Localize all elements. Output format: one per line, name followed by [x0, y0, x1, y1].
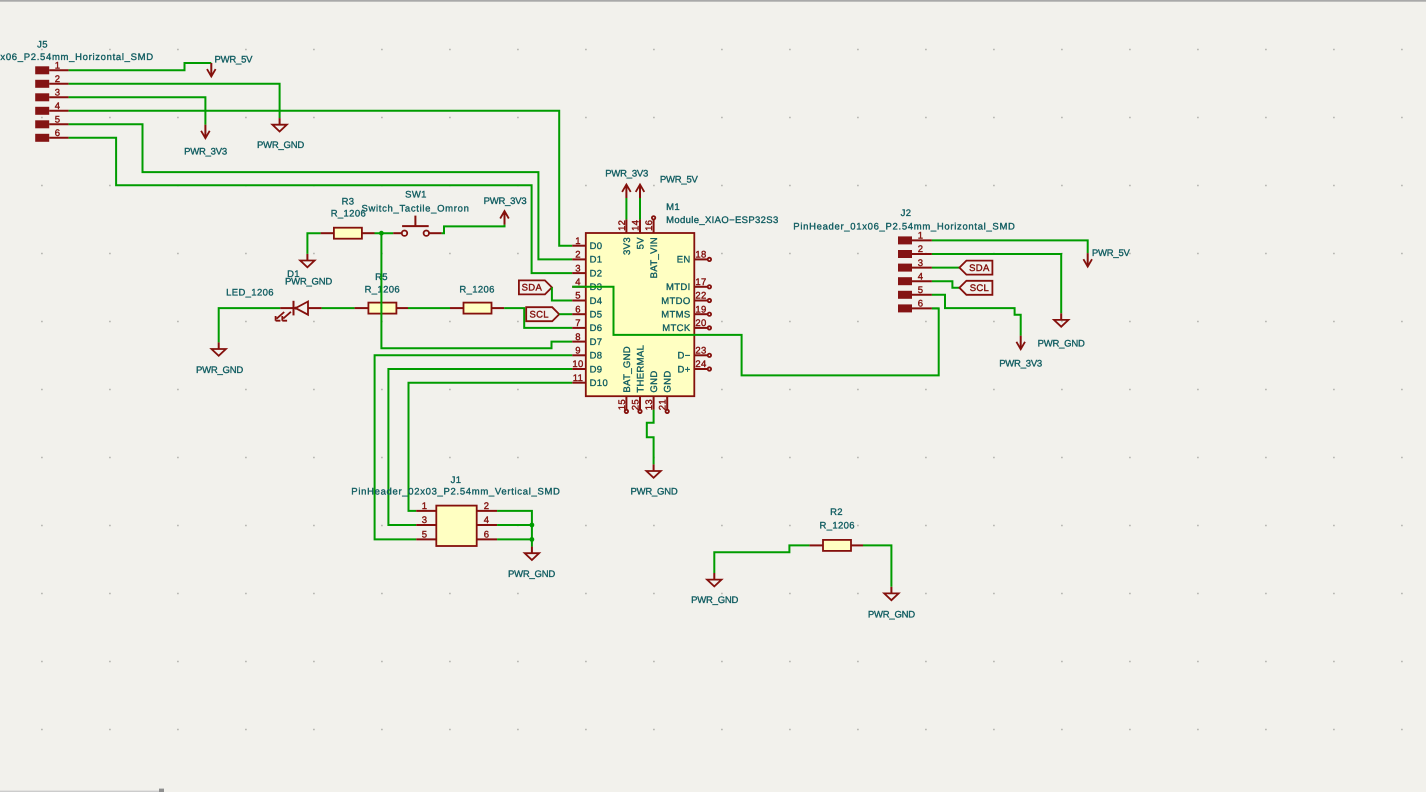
svg-text:THERMAL: THERMAL — [635, 345, 646, 393]
svg-text:6: 6 — [55, 128, 61, 139]
svg-text:PinHeader_01x06_P2.54mm_Horizo: PinHeader_01x06_P2.54mm_Horizontal_SMD — [793, 222, 1015, 233]
svg-text:22: 22 — [695, 291, 706, 302]
svg-text:D7: D7 — [590, 337, 603, 348]
power symbol PWR_GND — [691, 573, 738, 606]
svg-text:17: 17 — [695, 277, 706, 288]
power symbol PWR_GND — [285, 254, 332, 288]
svg-text:4: 4 — [55, 101, 61, 112]
svg-text:23: 23 — [695, 346, 706, 357]
wire J5 pin4 to M1 D0 — [69, 111, 573, 246]
junction node J1 pin6 — [530, 537, 535, 542]
LED D1 LED_1206 — [226, 269, 321, 321]
wire M1 D10 to J1 pin1 — [409, 383, 573, 511]
svg-text:PWR_GND: PWR_GND — [630, 486, 677, 497]
svg-text:D2: D2 — [590, 268, 603, 279]
svg-text:10: 10 — [572, 359, 583, 370]
svg-text:1: 1 — [422, 501, 428, 512]
svg-text:1: 1 — [575, 236, 581, 247]
svg-text:3V3: 3V3 — [622, 237, 633, 255]
svg-text:2: 2 — [575, 250, 581, 261]
svg-text:5: 5 — [575, 291, 581, 302]
svg-text:PWR_5V: PWR_5V — [1092, 248, 1131, 259]
svg-text:MTDI: MTDI — [666, 282, 691, 293]
svg-text:PWR_GND: PWR_GND — [868, 610, 915, 621]
wire R2 left to PWR_GND — [714, 545, 809, 573]
svg-text:24: 24 — [695, 359, 706, 370]
svg-text:Switch_Tactile_Omron: Switch_Tactile_Omron — [361, 203, 469, 214]
svg-text:D8: D8 — [590, 351, 603, 362]
svg-text:R_1206: R_1206 — [820, 521, 855, 532]
svg-text:4: 4 — [918, 271, 924, 282]
svg-text:PWR_GND: PWR_GND — [257, 140, 304, 151]
svg-text:GND: GND — [649, 370, 660, 392]
power symbol PWR_3V3 — [605, 168, 648, 198]
svg-text:J5: J5 — [37, 40, 48, 51]
global label SCL — [959, 281, 992, 295]
svg-text:PinHeader_02x03_P2.54mm_Vertic: PinHeader_02x03_P2.54mm_Vertical_SMD — [351, 486, 560, 497]
svg-text:PWR_5V: PWR_5V — [215, 55, 254, 66]
svg-text:SCL: SCL — [530, 309, 549, 320]
svg-text:PWR_GND: PWR_GND — [691, 595, 738, 606]
svg-text:D6: D6 — [590, 323, 603, 334]
svg-text:PWR_3V3: PWR_3V3 — [184, 147, 227, 158]
svg-text:SDA: SDA — [969, 263, 990, 274]
power symbol PWR_5V — [636, 175, 699, 198]
svg-text:5V: 5V — [635, 237, 646, 250]
power symbol PWR_3V3 — [999, 336, 1042, 370]
wire M1 D9 to J1 pin3 — [388, 369, 572, 525]
wire J5 pin6 to M1 D2 — [69, 138, 573, 273]
global label SDA — [959, 261, 992, 275]
svg-text:J1: J1 — [451, 475, 462, 486]
svg-text:5: 5 — [55, 115, 61, 126]
wire R3 right to SW1 — [375, 232, 394, 234]
resistor R3 — [321, 196, 375, 238]
wire SW1 to PWR_3V3 — [442, 225, 505, 234]
svg-text:MTDO: MTDO — [661, 296, 690, 307]
wire J2 pin1 to PWR_5V — [932, 240, 1088, 253]
svg-text:PWR_3V3: PWR_3V3 — [605, 168, 648, 179]
junction node R3/SW1 — [379, 231, 384, 236]
svg-text:D4: D4 — [590, 296, 603, 307]
svg-text:BAT_VIN: BAT_VIN — [649, 237, 660, 278]
svg-text:19: 19 — [695, 304, 706, 315]
svg-text:R_1206: R_1206 — [459, 285, 494, 296]
svg-text:6: 6 — [575, 304, 581, 315]
wire J2 pin4 to SCL — [932, 281, 960, 288]
wire J2 pin3 to SDA — [932, 267, 960, 269]
svg-text:SCL: SCL — [970, 283, 989, 294]
svg-text:6: 6 — [918, 299, 924, 310]
switch SW1 Switch_Tactile_Omron — [361, 190, 469, 236]
wire J5 pin2 to PWR_GND — [69, 84, 280, 118]
svg-text:PWR_3V3: PWR_3V3 — [484, 196, 527, 207]
svg-text:R3: R3 — [342, 196, 355, 207]
svg-text:13: 13 — [644, 399, 655, 410]
svg-text:2: 2 — [484, 501, 490, 512]
global label SCL — [526, 307, 559, 321]
svg-text:12: 12 — [617, 220, 628, 231]
wire junction down to D7 net — [381, 233, 572, 348]
global label SDA — [519, 280, 552, 294]
wire LED left to PWR_GND — [219, 308, 281, 342]
power symbol PWR_5V — [207, 55, 253, 77]
svg-text:15: 15 — [617, 399, 628, 410]
svg-text:25: 25 — [630, 399, 641, 410]
power symbol PWR_GND — [508, 547, 555, 581]
resistor R5 — [355, 272, 408, 314]
resistor R_1206 — [450, 285, 504, 314]
svg-text:3: 3 — [575, 263, 581, 274]
resistor R2 — [809, 507, 863, 551]
svg-text:R2: R2 — [830, 507, 843, 518]
wire J1 pins 2/4/6 to PWR_GND — [497, 511, 532, 547]
svg-text:D+: D+ — [677, 364, 690, 375]
connector J5 PinHeader_01x06 — [0, 40, 154, 142]
svg-text:D5: D5 — [590, 310, 603, 321]
svg-text:PinHeader_01x06_P2.54mm_Horizo: PinHeader_01x06_P2.54mm_Horizontal_SMD — [0, 52, 154, 63]
svg-text:18: 18 — [695, 250, 706, 261]
svg-text:SW1: SW1 — [405, 190, 427, 201]
power symbol PWR_3V3 — [484, 196, 527, 224]
svg-text:8: 8 — [575, 332, 581, 343]
power symbol PWR_3V3 — [184, 125, 227, 158]
svg-text:J2: J2 — [901, 208, 912, 219]
svg-text:PWR_5V: PWR_5V — [660, 175, 699, 186]
svg-text:6: 6 — [484, 530, 490, 541]
svg-text:BAT_GND: BAT_GND — [622, 346, 633, 393]
svg-text:3: 3 — [422, 515, 428, 526]
svg-text:2: 2 — [55, 74, 61, 85]
wire M1 3V3 pin12 to PWR_3V3 — [625, 198, 627, 219]
power symbol PWR_5V — [1083, 248, 1130, 267]
svg-text:D0: D0 — [590, 241, 603, 252]
connector J1 PinHeader_02x03 — [351, 475, 560, 546]
wire J2 pin6 stub — [932, 307, 939, 309]
svg-text:14: 14 — [630, 220, 641, 231]
power symbol PWR_GND — [257, 118, 304, 151]
wire R5 to R4 — [408, 307, 450, 309]
wire SCL to M1 D5 — [559, 313, 572, 315]
svg-text:PWR_GND: PWR_GND — [1038, 338, 1085, 349]
power symbol PWR_GND — [196, 342, 243, 375]
wire J5 pin3 to PWR_3V3 — [69, 97, 206, 124]
wire SDA to M1 D4 — [552, 287, 572, 300]
svg-text:16: 16 — [644, 220, 655, 231]
svg-text:9: 9 — [575, 346, 581, 357]
wire J2 pin5 to PWR_3V3 — [932, 295, 1021, 336]
svg-text:4: 4 — [484, 515, 490, 526]
connector J2 PinHeader_01x06 — [793, 208, 1015, 312]
svg-text:2: 2 — [918, 244, 924, 255]
svg-text:D10: D10 — [590, 378, 608, 389]
svg-text:3: 3 — [918, 258, 924, 269]
wire J5 pin5 to M1 D1 — [69, 124, 573, 259]
svg-text:Module_XIAO−ESP32S3: Module_XIAO−ESP32S3 — [666, 215, 779, 226]
svg-text:3: 3 — [55, 88, 61, 99]
svg-text:21: 21 — [658, 399, 669, 410]
svg-text:LED_1206: LED_1206 — [226, 287, 274, 298]
svg-text:M1: M1 — [666, 202, 680, 213]
svg-text:5: 5 — [422, 530, 428, 541]
svg-text:D9: D9 — [590, 364, 603, 375]
svg-text:D1: D1 — [590, 255, 603, 266]
wire M1 D3 to J2 pin6 — [572, 287, 939, 376]
power symbol PWR_GND — [868, 587, 915, 621]
wire J2 pin2 to PWR_GND — [932, 254, 1061, 313]
wire R to M1 D6 — [504, 308, 572, 328]
svg-text:MTCK: MTCK — [662, 323, 691, 334]
svg-text:PWR_3V3: PWR_3V3 — [999, 358, 1042, 369]
svg-text:7: 7 — [575, 318, 581, 329]
svg-text:SDA: SDA — [522, 283, 543, 294]
wire J5 pin1 to PWR_5V — [69, 63, 212, 70]
wire R3 left to PWR_GND — [307, 233, 320, 254]
module M1 Module_XIAO-ESP32S3 — [572, 202, 778, 413]
wire LED to R5 — [322, 307, 355, 309]
svg-text:MTMS: MTMS — [661, 310, 690, 321]
wire M1 GND pin13 to PWR_GND — [647, 410, 654, 465]
power symbol PWR_GND — [1038, 313, 1085, 349]
svg-text:11: 11 — [573, 373, 583, 384]
svg-text:GND: GND — [663, 370, 674, 392]
svg-text:D1: D1 — [287, 269, 300, 280]
svg-text:PWR_GND: PWR_GND — [196, 365, 243, 376]
power symbol PWR_GND — [630, 464, 677, 497]
wire R2 right to PWR_GND — [863, 545, 891, 586]
wire M1 5V pin14 to PWR_5V — [639, 198, 641, 219]
svg-text:D−: D− — [677, 351, 690, 362]
svg-text:5: 5 — [918, 285, 924, 296]
svg-text:PWR_GND: PWR_GND — [508, 569, 555, 580]
wire M1 D8 to J1 pin5 — [375, 355, 573, 539]
svg-text:EN: EN — [677, 255, 691, 266]
svg-text:20: 20 — [695, 318, 706, 329]
junction node J1 pin4 — [530, 523, 535, 528]
